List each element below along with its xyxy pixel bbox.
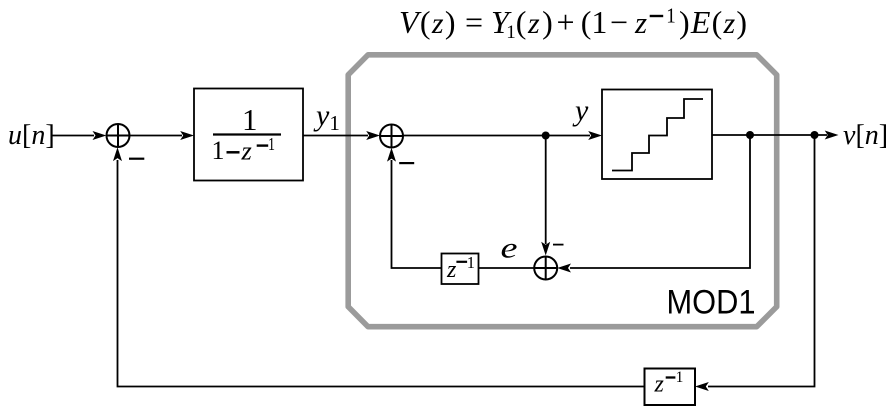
junction dot after quantizer (inner)	[746, 131, 754, 139]
wire: outer z-1 to S1 bottom	[118, 160, 645, 387]
summer S1	[107, 124, 130, 147]
svg-text:1: 1	[676, 369, 684, 386]
wire: S2 to quantizer	[403, 135, 590, 137]
svg-text:v[n]: v[n]	[843, 120, 888, 151]
MOD1 enclosure (gray chamfered box)	[348, 55, 777, 327]
staircase symbol	[612, 99, 703, 171]
wire: node down from dot1 to error summer (right branch)	[570, 135, 750, 268]
wire: error summer to inner z-1 block	[479, 267, 535, 269]
arrow into S2 from below	[387, 148, 396, 162]
svg-text:1: 1	[242, 102, 258, 137]
wire: S1 to block B1	[130, 135, 183, 137]
svg-text:−: −	[610, 4, 628, 40]
svg-text:1: 1	[467, 253, 475, 272]
wire: node down from y-dot to error summer (top branch)	[545, 135, 547, 244]
wire: B1 to summer S2	[303, 135, 368, 137]
minus at S1	[129, 158, 144, 160]
svg-text:MOD1: MOD1	[667, 284, 756, 322]
svg-text:1: 1	[268, 134, 275, 154]
svg-text:1: 1	[666, 4, 676, 28]
minus at S3	[553, 244, 564, 246]
title formula V(z) = Y1(z) + (1 - z^-1)E(z)	[399, 4, 748, 44]
svg-text:u[n]: u[n]	[8, 120, 55, 151]
arrowheads	[93, 131, 839, 392]
arrow into S1 from below	[113, 147, 122, 161]
summer S3 (error summer)	[534, 257, 557, 280]
svg-text:=: =	[465, 4, 483, 40]
arrow into B1	[180, 131, 194, 140]
inner z^-1 block	[442, 253, 479, 284]
svg-text:+: +	[557, 4, 575, 40]
svg-text:V(z): V(z)	[399, 4, 457, 40]
wire: quantizer to v[n]	[712, 134, 827, 136]
svg-text:Y1(z): Y1(z)	[491, 4, 553, 43]
arrow into quantizer	[588, 131, 602, 140]
junction dot before v[n] (outer)	[811, 131, 819, 139]
svg-text:y1: y1	[313, 99, 340, 135]
block B1: accumulator 1/(1-z^-1)	[194, 89, 303, 181]
svg-text:y: y	[572, 94, 589, 127]
summer S2	[380, 125, 403, 148]
svg-text:z: z	[241, 135, 252, 165]
wire: outer feedback from dot2 down to outer z-1	[708, 135, 815, 387]
quantizer block	[602, 90, 712, 180]
arrow into outer z-1	[695, 382, 709, 391]
wire: inner z-1 block to S2 bottom	[392, 160, 442, 268]
minus at S2	[399, 162, 414, 164]
arrow into S1	[93, 131, 107, 140]
arrow into error summer from right	[557, 264, 571, 273]
wire: u[n] to summer S1	[52, 135, 827, 387]
arrow to v[n]	[825, 131, 839, 140]
svg-text:z: z	[654, 372, 665, 398]
arrow into error summer from top	[541, 242, 550, 256]
svg-text:1: 1	[212, 136, 225, 165]
arrow into S2	[366, 131, 380, 140]
svg-text:)E(z): )E(z)	[679, 4, 748, 40]
svg-text:z: z	[634, 5, 647, 40]
svg-text:e: e	[501, 232, 518, 265]
svg-text:(1: (1	[581, 4, 608, 40]
junction dot on y line	[542, 132, 550, 140]
svg-text:z: z	[446, 257, 457, 283]
outer z^-1 block	[645, 369, 696, 406]
